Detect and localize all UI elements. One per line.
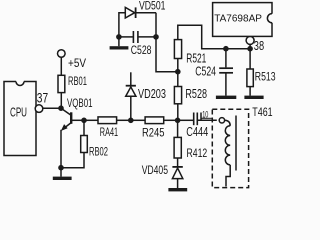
resistor RB01 <box>58 75 65 92</box>
svg-text:T461: T461 <box>252 105 273 119</box>
IC TA7698AP box <box>213 3 277 37</box>
node C524 junction <box>223 46 229 52</box>
svg-text:TA7698AP: TA7698AP <box>214 13 262 25</box>
wire node to R412 <box>177 120 179 137</box>
resistor R528 <box>174 87 181 104</box>
wire +5V to RB01 <box>60 57 62 75</box>
wire RB02 to emitter node <box>61 153 84 168</box>
ground <box>216 96 236 99</box>
svg-text:R521: R521 <box>186 51 206 65</box>
inductor coil T461 <box>225 126 230 165</box>
wire node to C444 <box>178 119 194 121</box>
pin 38 stub <box>249 44 251 48</box>
wire R513 to ground <box>249 87 251 96</box>
svg-text:VQB01: VQB01 <box>67 96 93 110</box>
node base junction <box>58 105 64 111</box>
svg-text:RA41: RA41 <box>100 125 118 139</box>
svg-text:R513: R513 <box>255 70 276 84</box>
resistor RA41 <box>98 117 117 124</box>
capacitor C528 <box>133 31 156 43</box>
diode VD405 <box>172 167 182 188</box>
wire R245 to node <box>164 119 178 121</box>
wire terminal to coil <box>225 120 231 125</box>
svg-text:+5V: +5V <box>68 56 86 70</box>
svg-text:C528: C528 <box>131 43 152 57</box>
transistor VQB01 <box>61 108 84 131</box>
svg-text:C444: C444 <box>186 125 208 139</box>
wire node to RB02 <box>83 120 85 135</box>
CPU box <box>4 78 36 156</box>
node emitter junction <box>58 165 64 171</box>
node R521 R528 junction <box>175 69 181 75</box>
transformer core line <box>235 116 237 171</box>
emitter wire <box>60 130 62 168</box>
wire VD501 right down <box>155 13 157 37</box>
ground <box>110 46 129 49</box>
capacitor C444 <box>194 113 217 126</box>
svg-text:VD501: VD501 <box>139 0 166 12</box>
pin 37 terminal <box>35 105 43 113</box>
diode VD501 <box>125 7 156 18</box>
transformer T461 dashed box <box>212 109 248 187</box>
wire node up to R528 <box>177 104 179 121</box>
svg-text:CPU: CPU <box>10 105 27 120</box>
resistor R245 <box>145 117 164 124</box>
svg-text:VD405: VD405 <box>142 163 169 177</box>
wire node to R245 <box>131 119 145 121</box>
node R513 junction <box>247 46 253 52</box>
resistor R521 <box>174 40 181 59</box>
node VD203 junction <box>128 118 134 124</box>
pin 10 bracket <box>201 117 212 119</box>
wire C524 drop <box>225 49 227 68</box>
svg-text:37: 37 <box>37 90 48 105</box>
svg-text:10: 10 <box>202 109 208 120</box>
node base node <box>81 118 87 124</box>
svg-text:RB01: RB01 <box>68 74 87 88</box>
wire node to R513 <box>249 49 251 69</box>
svg-text:RB02: RB02 <box>89 144 108 158</box>
wire R412 to VD405 <box>177 158 179 167</box>
wire RB01 to node <box>60 93 62 109</box>
wire to ground <box>60 168 62 177</box>
resistor R513 <box>247 69 253 87</box>
pin 10 tick <box>200 113 202 121</box>
svg-text:R528: R528 <box>185 87 207 101</box>
wire R521 top route <box>178 25 250 49</box>
wire R528 to node <box>177 72 179 87</box>
wire to C528 <box>119 36 133 38</box>
wire C528 right to R521 node <box>156 37 178 72</box>
svg-text:C524: C524 <box>195 65 216 79</box>
corner VD501 left <box>119 13 125 37</box>
pin 38 terminal <box>246 36 254 44</box>
wire pin37 to node <box>43 107 61 109</box>
node center junction <box>175 118 181 124</box>
node C528 right <box>153 34 159 40</box>
wire coil bottom <box>226 165 230 187</box>
resistor RB02 <box>81 136 88 153</box>
svg-text:R245: R245 <box>142 126 165 140</box>
resistor R412 <box>174 137 181 158</box>
svg-text:R412: R412 <box>187 146 208 160</box>
wire RA41 to node <box>117 119 131 121</box>
svg-text:VD203: VD203 <box>138 87 166 101</box>
wire ground stub <box>118 37 120 46</box>
capacitor C524 <box>219 68 233 95</box>
wire node to R521 <box>177 59 179 72</box>
svg-text:38: 38 <box>254 38 264 53</box>
wire node to RA41 <box>84 119 98 121</box>
terminal T461 pin 10 <box>219 118 224 123</box>
ground <box>168 188 187 191</box>
ground <box>53 177 72 180</box>
node C528 left <box>116 34 122 40</box>
+5V terminal <box>58 50 66 58</box>
ground <box>244 96 263 99</box>
diode VD203 <box>126 72 136 120</box>
